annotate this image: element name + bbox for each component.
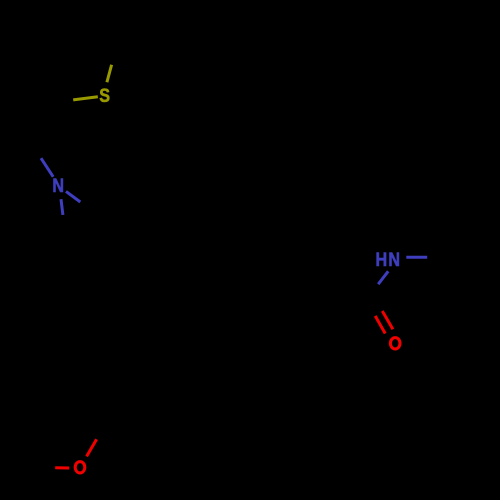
bond N2-CH3 right (nitrogen half): [406, 256, 427, 259]
bond N1-CH2 upper-left (nitrogen half): [41, 158, 53, 177]
atom label O1 (carbonyl): [390, 338, 400, 349]
bond N1-CH lower-right (nitrogen half): [66, 191, 80, 202]
double bond C=O line 1 (oxygen half): [382, 311, 393, 329]
double bond C=O line 2 (oxygen half): [375, 316, 385, 334]
bond N1-CH2 lower (nitrogen half): [61, 199, 63, 215]
bond O2-Caryl upper-right (oxygen half): [87, 439, 97, 456]
bond S1-CH2 (sulfur half): [73, 97, 98, 100]
svg-text:N: N: [52, 175, 64, 197]
svg-text:S: S: [99, 85, 110, 107]
atom label O2 (methoxy): [75, 462, 85, 473]
svg-text:N: N: [388, 249, 400, 271]
bond S1-CH3 (sulfur half): [107, 65, 112, 83]
svg-text:H: H: [375, 249, 387, 271]
bond O2-CH3 left (oxygen half): [55, 466, 69, 469]
bond N2-C(=O) lower-left (nitrogen half): [378, 271, 388, 284]
